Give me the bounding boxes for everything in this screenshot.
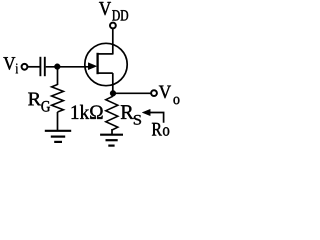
Ro arrow elbow [149,113,164,123]
Ro arrowhead [142,109,150,115]
transistor Q1 body circle [85,43,127,85]
node Vi label i subscript [16,64,18,74]
wire gate node down to RG [57,67,59,85]
resistor RS label R [121,105,134,119]
capacitor C1 plate right [44,57,46,76]
ground for RG [45,131,71,142]
resistor RG label R [28,93,41,106]
node VDD label DD subscript [112,10,128,20]
resistor RS zigzag [106,96,118,130]
VDD terminal [110,23,116,29]
capacitor C1 plate left [39,57,41,76]
value label 1kOhm [72,105,103,119]
transistor Q1 source arm [98,72,113,74]
resistor RS label S subscript [134,115,141,125]
node Vo label o subscript [174,97,180,104]
node Vi label V [3,57,15,70]
transistor Q1 drain arm [98,53,113,55]
ground for RS [100,135,123,146]
node Vo label V [159,86,171,99]
node gate junction dot [54,64,60,70]
resistor RG label G subscript [41,101,50,112]
wire output node to Vo terminal [113,92,151,94]
node VDD label V [99,2,111,15]
wire RG to ground [57,112,59,131]
wire source lead to output node [112,73,114,93]
transistor Q1 gate arrowhead [88,63,96,70]
wire RS to ground [111,129,113,135]
wire drain lead [112,29,114,55]
label Ro [152,123,169,136]
wire capacitor to gate [46,66,90,68]
transistor Q1 channel bar [96,53,98,74]
input terminal [22,64,28,70]
resistor RG zigzag [52,85,64,113]
node output junction dot [110,90,116,96]
wire input to capacitor [27,66,39,68]
output terminal [151,90,157,96]
